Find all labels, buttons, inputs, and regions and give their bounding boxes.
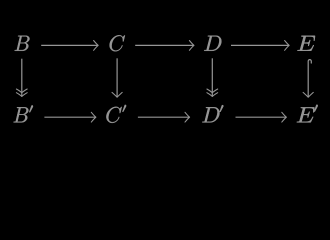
wire: two-headed arrow B to B' [21, 59, 23, 96]
node D' [202, 107, 219, 122]
prime of B' [29, 106, 32, 112]
node B [15, 36, 30, 51]
node E [297, 36, 315, 51]
prime of E' [314, 105, 317, 111]
wire: arrow D to E [231, 44, 289, 46]
node E' [297, 107, 315, 122]
wire: hook arrow E to E' [308, 60, 311, 97]
wire: arrow C' to D' [138, 116, 189, 118]
wire: arrow C to D [135, 44, 193, 46]
wire: arrow C to C' [116, 58, 118, 97]
wire: arrow B to C [41, 44, 98, 46]
node C' [106, 107, 121, 123]
prime of D' [220, 105, 223, 111]
wire: two-headed arrow D to D' [211, 58, 213, 96]
wire: arrow B' to C' [44, 116, 95, 118]
node D [204, 36, 221, 51]
prime of C' [123, 105, 126, 111]
node B' [13, 107, 28, 122]
wire: arrow D' to E' [236, 116, 287, 118]
node C [110, 35, 125, 51]
